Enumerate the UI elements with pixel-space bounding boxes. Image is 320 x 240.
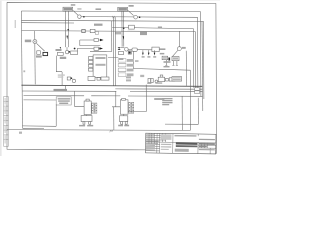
lower line yE	[24, 95, 203, 98]
tower A connection vertical	[75, 91, 85, 106]
stub vertical x=77.3	[76, 48, 78, 51]
small tick left	[59, 47, 62, 48]
air line end box top	[94, 39, 99, 42]
small box on L5 b	[95, 32, 98, 35]
tower A hatch coil	[92, 103, 97, 113]
dark marks in aux box	[129, 52, 131, 54]
leader from valve to box	[173, 50, 179, 56]
gas unit box GS2	[118, 7, 128, 11]
labels under drop arrows	[142, 56, 145, 57]
component row: box A	[67, 77, 70, 80]
notes text block	[162, 98, 172, 99]
component box on L6	[129, 25, 135, 29]
duct side labels lower	[126, 76, 131, 78]
label below L5 left	[140, 32, 147, 35]
junction dot on L2 right	[139, 16, 141, 18]
gray text smudges	[5, 4, 186, 143]
GS1 diagonal leader	[73, 10, 79, 15]
left long vertical riser x=21.8	[21, 11, 22, 128]
pump circle	[125, 48, 129, 52]
branch line L6 y=28	[112, 27, 194, 87]
heater box text 1	[96, 57, 106, 59]
title block	[146, 133, 216, 154]
gas pipe jog down	[56, 56, 62, 72]
label fan lower	[160, 53, 165, 55]
return line yD	[130, 91, 202, 93]
header line L5 y=30.8	[21, 31, 195, 89]
fan box on duct	[152, 47, 159, 52]
label K cluster below	[36, 55, 42, 57]
sensor box R2 inner text	[173, 57, 178, 59]
exhaust return vertical x=198.3	[197, 98, 199, 125]
GS1 pipe dark arrow	[67, 36, 68, 40]
riser dark arrow	[123, 36, 124, 39]
mid duct vertical pair x=113.4/115.3	[113, 17, 115, 86]
long bottom line y=130	[7, 129, 190, 132]
title verticals right columns	[198, 134, 210, 154]
sensor box R1	[162, 56, 168, 60]
label GS2 box inner	[119, 8, 127, 11]
air line top y=40	[80, 39, 100, 41]
tower B hatch coil	[129, 102, 134, 113]
supply air line yB	[22, 90, 116, 92]
tiny label near x22	[23, 70, 25, 72]
tiny corner label	[19, 132, 22, 134]
valve circle V1	[78, 15, 81, 18]
label GS2	[129, 5, 134, 7]
right riser valve circle	[178, 47, 182, 51]
label below L5 mid	[116, 32, 122, 34]
vertical drop x=65.3	[64, 85, 66, 91]
dark box on L5 left	[82, 29, 85, 32]
junction dot at x68 on L5	[67, 29, 69, 31]
right vertical x=190.3	[189, 70, 191, 130]
arrowhead top	[100, 39, 104, 42]
stacked louver symbol 4	[118, 73, 126, 77]
stacked louver symbol 1	[118, 59, 126, 77]
component row labels small	[155, 82, 162, 84]
supply duct line y=49.7	[128, 49, 152, 51]
right short line y=124.3	[165, 123, 198, 125]
label right of fan box	[159, 48, 165, 50]
air line lower y=48.4	[77, 47, 99, 49]
drop arrow 3	[154, 50, 156, 53]
valve B label	[118, 125, 123, 127]
valve A top pipe	[85, 115, 87, 116]
pump aux link line	[108, 57, 118, 59]
dark dot right of it	[68, 51, 70, 53]
label under C2	[60, 57, 66, 59]
title text smudges	[146, 134, 215, 152]
pump dark valve bowtie	[118, 47, 121, 50]
dark valve blob	[168, 58, 170, 61]
GS2 drop pipe b	[123, 11, 125, 46]
GS1 drop pipe a	[65, 11, 67, 47]
gas valve circle lower	[65, 50, 68, 53]
mid box right edge vertical	[128, 85, 146, 112]
dark box K2	[43, 52, 48, 55]
left mid vertical x=35	[34, 31, 37, 85]
label on L6 line	[158, 27, 162, 29]
pump aux box a	[118, 52, 123, 55]
heater box text 2	[96, 64, 106, 66]
break squiggle	[110, 130, 113, 133]
GS2 drop pipe a	[121, 11, 123, 46]
component row: text box K	[172, 77, 182, 82]
component box C2	[58, 52, 64, 55]
label near valve right	[182, 47, 186, 49]
component row: alarm circle	[72, 79, 75, 82]
gas header line L1 y=11.2	[21, 11, 201, 96]
legs under sensor boxes	[166, 60, 177, 66]
label GS1 box inner	[64, 8, 72, 11]
right riser vertical upper	[178, 31, 180, 47]
right notes box vertical x=182.2	[181, 96, 183, 130]
header line L3 y=20.5	[21, 20, 204, 99]
heater big box	[93, 55, 107, 77]
damper rounded box	[132, 48, 137, 51]
tower A body	[84, 101, 91, 115]
pipe to valve circle	[66, 47, 68, 50]
label GS1	[71, 4, 76, 6]
tower A cap	[86, 99, 89, 101]
dark dot near air box	[74, 48, 76, 50]
component row: box H with cap	[160, 75, 163, 77]
GS2 diagonal leader	[128, 10, 134, 15]
crossing ticks on L2	[112, 16, 114, 18]
title verticals left columns	[149, 133, 173, 153]
vertical x=113.7 lower	[113, 107, 115, 130]
sensor box R1 inner text	[163, 57, 167, 59]
air duct bottom line	[80, 45, 101, 47]
pump inlet stub	[121, 47, 125, 49]
sensor box R2	[172, 57, 179, 61]
shutoff valve MOU circle	[33, 40, 37, 44]
exhaust sloped line y=68.5	[133, 69, 190, 71]
pump aux box b	[128, 51, 131, 54]
label left of air box	[56, 49, 62, 51]
cabinet text lines	[58, 98, 71, 99]
feet marks	[165, 64, 178, 66]
louver labels column	[126, 59, 134, 81]
valve A label	[79, 125, 85, 127]
label near damper drop	[135, 60, 139, 62]
component row: box F	[151, 79, 153, 83]
drop arrow 1	[142, 50, 144, 53]
tower B connection line	[112, 91, 120, 107]
exhaust air label	[154, 98, 164, 100]
air duct left vertical	[79, 40, 81, 46]
GS1 drop pipe b	[67, 11, 69, 47]
component row: dot	[71, 77, 73, 79]
line y=125.9	[23, 125, 57, 127]
label under sensor boxes	[164, 61, 171, 63]
TEN element box 3	[89, 64, 93, 67]
TEN element box 4	[89, 68, 93, 71]
component row: box D	[101, 77, 109, 80]
vertical drop x=62.1	[61, 72, 63, 85]
tower B body	[120, 100, 128, 114]
label under pump	[119, 58, 124, 60]
valve A body	[81, 116, 92, 122]
label on gas line b	[96, 8, 102, 10]
component row: box B	[88, 76, 95, 80]
MOU leader diagonal	[37, 43, 45, 51]
drop arrow 2	[148, 50, 150, 53]
gas unit box GS1	[63, 7, 73, 11]
gas feed vertical x=111.7	[111, 21, 113, 52]
margin tick text top	[15, 20, 16, 28]
stacked louver symbol 3	[118, 68, 126, 72]
left margin vertical texts	[5, 98, 6, 105]
component row text K inner	[173, 77, 181, 78]
return line yC	[115, 88, 202, 90]
small mark under exhaust line	[140, 75, 144, 77]
junction dot on L6	[123, 28, 125, 30]
TEN element box 2	[89, 60, 93, 63]
junction dot on L2	[83, 16, 85, 18]
title horizontals	[146, 135, 216, 151]
duct connector line y=51.5	[107, 50, 112, 52]
text block box (cabinet)	[56, 97, 71, 105]
cabinet left vertical	[55, 104, 57, 126]
drawing frame	[7, 2, 217, 154]
line y=128.2	[23, 127, 45, 129]
supply air double line yA	[21, 85, 202, 86]
page scan edge top	[0, 0, 220, 2]
component row: box C	[97, 78, 100, 81]
component box C1	[71, 51, 78, 55]
header line L4 y=22.8	[21, 22, 74, 24]
valve B body	[120, 116, 128, 122]
faint text under jog	[58, 74, 65, 75]
right mid vertical x=186.4	[185, 51, 187, 86]
right long vertical x=202.3	[201, 21, 204, 111]
valve B top pipe	[123, 114, 125, 116]
left margin table	[4, 97, 9, 147]
label pipe mid	[94, 24, 103, 26]
label on gas line a	[77, 8, 81, 9]
valve A stub legs	[83, 122, 85, 125]
component row: circle G	[155, 80, 158, 83]
gas branch line L2 y=16.9	[81, 17, 198, 92]
heater top line	[90, 50, 107, 52]
line end box pair	[195, 88, 200, 91]
control box K1	[37, 51, 41, 55]
page scan edge left	[0, 0, 2, 156]
air line end box lower	[94, 47, 99, 50]
MOU inner mark	[34, 40, 37, 42]
small box on L5	[90, 29, 95, 32]
component row: box J	[169, 78, 174, 81]
valve B stub legs	[121, 122, 123, 125]
damper drop vertical	[132, 51, 134, 68]
tower B cap	[122, 99, 126, 101]
valve circle V2	[134, 15, 138, 19]
supply air label	[54, 89, 68, 91]
arrowhead lower	[99, 47, 103, 50]
stacked louver symbol 2	[118, 63, 126, 67]
lower line yF	[24, 99, 57, 101]
component row: box E	[148, 79, 151, 83]
label MOU	[25, 40, 31, 43]
TEN element box 1	[89, 57, 93, 60]
component row: small pair I	[165, 79, 168, 82]
